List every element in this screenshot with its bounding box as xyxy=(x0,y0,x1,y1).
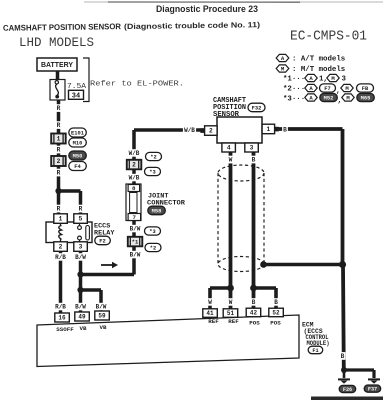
sensor pin 4 xyxy=(222,143,236,152)
shield drain wire xyxy=(263,263,343,266)
svg-text:3: 3 xyxy=(79,244,83,251)
relay contact bar xyxy=(86,226,90,241)
svg-text:*2: *2 xyxy=(150,245,156,251)
svg-text:POS: POS xyxy=(249,320,260,327)
wire middle vertical xyxy=(132,130,136,275)
ground F26 symbol xyxy=(343,370,346,378)
ECM box xyxy=(37,315,299,367)
connector F4 xyxy=(69,162,87,171)
refer bracket xyxy=(83,58,89,102)
wire battery to fuse xyxy=(56,71,60,80)
svg-text:VB: VB xyxy=(100,324,107,331)
svg-text:W: W xyxy=(208,299,212,306)
connector *3 oval 2 xyxy=(145,227,161,235)
wire label B 52 xyxy=(273,298,279,306)
junction B/W to middle column xyxy=(77,271,83,277)
svg-text:*2···: *2··· xyxy=(283,86,305,94)
svg-text:Refer to EL-POWER.: Refer to EL-POWER. xyxy=(90,81,184,89)
svg-text:M65: M65 xyxy=(361,95,371,101)
wire label R 5 xyxy=(56,205,62,213)
wire W in shield xyxy=(229,152,233,313)
svg-text:R/B: R/B xyxy=(55,304,66,311)
svg-text:16: 16 xyxy=(58,315,66,322)
connector E101 xyxy=(69,128,87,137)
svg-text:W: W xyxy=(229,157,233,164)
wire label R/B top xyxy=(54,253,67,261)
wire R fuse to junction xyxy=(57,100,61,192)
wire B sensor to corner xyxy=(279,127,343,131)
svg-text:LHD MODELS: LHD MODELS xyxy=(19,36,94,50)
svg-text:Diagnostic Procedure 23: Diagnostic Procedure 23 xyxy=(156,4,258,14)
svg-text:2: 2 xyxy=(132,162,136,169)
svg-text:(Diagnostic trouble code No. 1: (Diagnostic trouble code No. 11) xyxy=(124,20,261,31)
svg-text:CAMSHAFT POSITION SENSOR: CAMSHAFT POSITION SENSOR xyxy=(3,22,121,33)
wire label W top xyxy=(228,156,234,164)
svg-text:M50: M50 xyxy=(73,153,83,159)
svg-text:3: 3 xyxy=(342,76,347,84)
wire W/B horizontal from sensor xyxy=(134,128,204,132)
ECM pin 52 xyxy=(269,308,284,317)
svg-text:B: B xyxy=(252,157,256,164)
connector *2 oval xyxy=(146,152,162,160)
svg-text:*1···: *1··· xyxy=(283,76,305,84)
battery xyxy=(37,58,77,71)
svg-text:*1: *1 xyxy=(132,239,139,246)
wire label R 4 xyxy=(56,169,62,177)
svg-text:5: 5 xyxy=(79,216,83,223)
svg-text:R/B: R/B xyxy=(55,254,66,261)
svg-text:F32: F32 xyxy=(252,105,262,111)
wire label W 41 xyxy=(207,298,213,306)
wire R/B relay pin2 to ECM xyxy=(59,251,63,313)
ground connector F26 xyxy=(339,385,356,392)
svg-text:4: 4 xyxy=(227,145,231,152)
svg-text:BATTERY: BATTERY xyxy=(41,62,73,69)
connector *3 oval xyxy=(145,167,161,175)
svg-text:B: B xyxy=(341,353,345,360)
wire label W/B mid2 xyxy=(127,174,140,182)
svg-text:W/B: W/B xyxy=(184,127,195,134)
svg-text:REF: REF xyxy=(208,318,219,325)
svg-text:E101: E101 xyxy=(71,130,84,136)
svg-text:B: B xyxy=(283,127,287,134)
svg-text:EC-CMPS-01: EC-CMPS-01 xyxy=(290,30,367,45)
relay pin 2 xyxy=(54,242,68,252)
svg-text:1,: 1, xyxy=(319,76,328,84)
svg-text:B/W: B/W xyxy=(130,226,141,233)
svg-text:W: W xyxy=(229,299,233,306)
wire label B right xyxy=(282,126,288,134)
svg-text:51: 51 xyxy=(227,310,235,317)
sensor pin 2 xyxy=(205,126,218,136)
svg-text:W/B: W/B xyxy=(129,175,140,182)
connector E101/M10 pin 1 xyxy=(51,134,65,144)
svg-text:52: 52 xyxy=(272,310,280,317)
svg-text:2: 2 xyxy=(57,158,61,165)
svg-text:41: 41 xyxy=(206,310,214,317)
wire label B/W bottom 1 xyxy=(74,303,87,311)
svg-text:F4: F4 xyxy=(74,164,81,170)
svg-text:*3: *3 xyxy=(149,229,155,235)
svg-text:R: R xyxy=(57,170,61,177)
ECM pin 51 xyxy=(223,309,238,318)
connector *2/*3 pin 2 xyxy=(127,160,142,170)
junction shield xyxy=(339,261,346,268)
svg-text:R: R xyxy=(57,105,61,112)
wire label B/W bottom 2 xyxy=(94,303,107,311)
fuse 7.5A xyxy=(50,80,65,101)
ECM pin 49 xyxy=(75,312,90,321)
wire B vertical right xyxy=(341,129,345,265)
connector M50 xyxy=(69,151,87,160)
svg-text:REF: REF xyxy=(228,318,239,325)
joint connector M58 xyxy=(148,206,166,215)
svg-text:2: 2 xyxy=(209,128,213,135)
svg-text:F7: F7 xyxy=(324,86,330,92)
header rule xyxy=(84,1,383,3)
wire label B 42 xyxy=(251,298,257,306)
wire label W/B sensor xyxy=(183,126,196,134)
svg-text:34: 34 xyxy=(72,93,80,101)
svg-text:M10: M10 xyxy=(73,140,83,146)
joint connector pin 7 xyxy=(128,214,141,221)
connector *2 oval 2 xyxy=(145,243,161,251)
svg-text:FB: FB xyxy=(362,86,369,92)
svg-text:M58: M58 xyxy=(152,208,162,214)
ground connector F37 xyxy=(364,385,381,392)
svg-text:B: B xyxy=(252,299,256,306)
svg-text:2: 2 xyxy=(59,244,63,251)
relay coil xyxy=(60,223,62,242)
svg-text:: M/T models: : M/T models xyxy=(292,66,345,74)
junction B split xyxy=(250,285,257,292)
connector M50/F4 pin 2 xyxy=(51,156,65,166)
wire label B/W top xyxy=(74,253,87,261)
ECM pin 16 xyxy=(55,313,70,322)
svg-text:49: 49 xyxy=(78,314,86,321)
sensor connector F32 xyxy=(248,103,265,112)
svg-text:B/W: B/W xyxy=(96,304,107,311)
connector M10 xyxy=(69,138,87,147)
sensor pin 3 xyxy=(245,143,258,152)
wire label R/B bottom xyxy=(54,303,67,311)
svg-text:1: 1 xyxy=(266,126,270,133)
relay switch xyxy=(79,223,81,226)
wire label B top xyxy=(251,156,257,164)
svg-text:W/B: W/B xyxy=(129,150,140,157)
ECM pin 41 xyxy=(203,309,218,318)
wire label W 51 xyxy=(228,298,234,306)
wire label R 6 xyxy=(78,205,84,213)
svg-text:42: 42 xyxy=(250,310,258,317)
wire label B/W mid2 xyxy=(128,251,141,258)
next-section bar xyxy=(311,397,383,400)
junction to relay pin 5 xyxy=(55,188,61,194)
wire label W/B mid1 xyxy=(127,149,140,157)
wire R into relay pin1 xyxy=(57,191,61,215)
svg-text:B/W: B/W xyxy=(75,254,86,261)
svg-text:*3···: *3··· xyxy=(283,95,305,103)
svg-text:F1: F1 xyxy=(312,348,318,354)
subtitle CAMSHAFT POSITION SENSOR code 11 xyxy=(3,20,261,33)
arrow flow xyxy=(101,264,112,266)
relay box xyxy=(46,222,92,243)
svg-text:8: 8 xyxy=(132,185,136,192)
svg-text:*2: *2 xyxy=(150,154,156,160)
svg-text:M52: M52 xyxy=(324,95,334,101)
wire B in shield xyxy=(252,152,256,313)
relay pin 1 xyxy=(54,214,68,224)
svg-text:VB: VB xyxy=(80,325,87,332)
connector *1 box xyxy=(128,237,143,247)
junction B/W branch to pin 59 xyxy=(77,287,83,293)
svg-text:B/W: B/W xyxy=(75,304,86,311)
svg-text:F26: F26 xyxy=(343,387,352,393)
ECM pin 59 xyxy=(95,311,110,320)
relay pin 5 xyxy=(74,214,88,224)
joint connector box xyxy=(126,184,141,221)
wire label R 3 xyxy=(56,146,62,154)
ECM pin 42 xyxy=(246,308,261,317)
svg-text:SSOFF: SSOFF xyxy=(56,326,74,333)
svg-text:R: R xyxy=(57,122,61,129)
sensor box xyxy=(217,117,262,143)
svg-text:B/W: B/W xyxy=(130,252,141,259)
wire label R 1 xyxy=(56,104,62,112)
svg-text:1: 1 xyxy=(59,216,63,223)
svg-text:1: 1 xyxy=(57,136,61,143)
svg-text:R: R xyxy=(79,206,83,213)
shield cylinder xyxy=(218,165,264,181)
junction W split xyxy=(227,285,234,292)
svg-text:7: 7 xyxy=(133,214,137,221)
wire label B lower xyxy=(340,352,346,360)
svg-text:B: B xyxy=(274,299,278,306)
svg-text:POS: POS xyxy=(270,320,281,327)
svg-text:F2: F2 xyxy=(99,238,105,244)
svg-text:: A/T models: : A/T models xyxy=(292,56,345,64)
svg-text:,: , xyxy=(338,97,342,105)
junction grounds xyxy=(341,367,347,373)
wire label B/W mid1 xyxy=(128,225,141,233)
svg-text:F37: F37 xyxy=(368,387,377,393)
fuse number 34 xyxy=(69,90,84,99)
svg-text:R: R xyxy=(57,147,61,154)
wire label R 2 xyxy=(56,121,62,129)
svg-text:R: R xyxy=(57,206,61,213)
relay pin 3 xyxy=(74,242,88,252)
joint connector pin 8 xyxy=(128,185,140,192)
sensor pin 1 xyxy=(262,124,275,134)
legend A/T-M/T models key xyxy=(276,54,289,61)
svg-text:*3: *3 xyxy=(149,169,155,175)
svg-text:3: 3 xyxy=(250,145,254,152)
ground F37 symbol xyxy=(368,378,380,380)
relay connector F2 xyxy=(95,236,111,245)
svg-text:59: 59 xyxy=(98,313,106,320)
ECM connector F1 xyxy=(308,346,323,354)
wire B/W relay pin3 to ECM xyxy=(79,251,83,313)
